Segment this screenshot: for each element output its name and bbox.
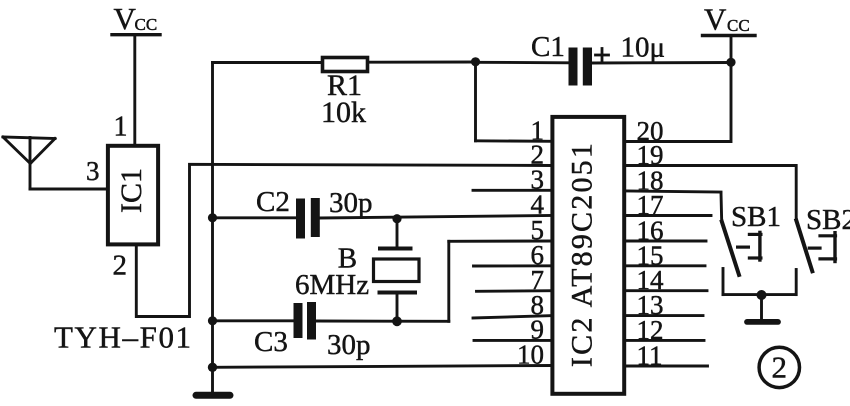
capacitor C1 [569, 48, 593, 86]
node rail-C3 junction [208, 316, 217, 325]
svg-text:IC1: IC1 [115, 168, 148, 213]
crystal B [374, 219, 420, 322]
resistor R1 [323, 58, 368, 72]
node switch-ground junction [757, 290, 767, 300]
ground rail wire [211, 63, 214, 393]
wire C2 to IC2 pin 4 [320, 216, 552, 219]
svg-text:V: V [114, 1, 137, 36]
svg-text:1: 1 [114, 112, 128, 143]
wire C3 to riser [316, 320, 449, 323]
wire IC1 pin 2 to IC2 pin 2 [136, 164, 552, 316]
pin 5 of IC2 (wire from C3/crystal riser) [449, 215, 552, 245]
svg-text:3: 3 [86, 156, 100, 186]
pin 10 of IC2 (ground) [213, 340, 553, 370]
pin 14 of IC2 [626, 265, 707, 295]
wire SB1/SB2 common to ground [723, 293, 796, 296]
wire C1 to VCC-right node [592, 61, 731, 64]
pin 18 of IC2 (wire to SB1) [626, 166, 721, 196]
svg-text:CC: CC [727, 16, 750, 35]
node VCC junction [726, 58, 735, 67]
pin 7 of IC2 [477, 265, 553, 295]
wire node RST to C1 [476, 61, 569, 64]
svg-text:10k: 10k [321, 96, 366, 129]
pushbutton SB1 [721, 193, 761, 295]
svg-text:6MHz: 6MHz [295, 269, 369, 301]
svg-text:2: 2 [113, 250, 128, 282]
wire R1 to node RST [368, 61, 476, 64]
IC2 AT89C2051 [552, 117, 624, 394]
svg-text:IC2 AT89C2051: IC2 AT89C2051 [566, 141, 599, 367]
svg-text:C2: C2 [256, 186, 290, 218]
svg-text:2: 2 [772, 350, 788, 385]
wire riser up to IC2 pin 5 [447, 241, 450, 321]
IC1 receiver module [108, 146, 158, 245]
pin 19 of IC2 (wire to SB2) [626, 140, 796, 170]
pin 9 of IC2 [474, 315, 552, 345]
power VCC left [114, 1, 158, 36]
pin 16 of IC2 [626, 216, 706, 246]
pin 8 of IC2 [473, 290, 552, 320]
svg-text:C1: C1 [531, 31, 565, 63]
wire node RST down to IC2 pin 1 [474, 62, 477, 141]
ground symbol left [196, 392, 230, 399]
svg-text:10μ: 10μ [621, 32, 666, 64]
svg-text:10: 10 [517, 340, 544, 370]
node RST junction [471, 57, 480, 66]
pin 12 of IC2 [626, 315, 704, 345]
pin 1 of IC2 [476, 116, 553, 146]
capacitor C3 [294, 302, 317, 340]
wire rail to C2 [213, 216, 297, 219]
pin 11 of IC2 [626, 341, 708, 371]
svg-text:SB1: SB1 [731, 201, 781, 233]
svg-text:30p: 30p [327, 329, 371, 361]
svg-text:SB2: SB2 [806, 204, 850, 236]
svg-text:CC: CC [135, 15, 158, 34]
pin 3 of IC2 [473, 165, 552, 195]
node C2-crystal junction [392, 214, 401, 223]
svg-text:TYH–F01: TYH–F01 [54, 320, 193, 355]
wire VCC-right down through node to IC2 pin 20 [626, 36, 731, 142]
pin 13 of IC2 [626, 290, 703, 320]
svg-text:11: 11 [637, 341, 663, 371]
pin 6 of IC2 [474, 240, 553, 270]
wire rail to C3 [213, 319, 294, 322]
ground symbol right [747, 319, 778, 325]
pin 15 of IC2 [626, 240, 705, 270]
wire junction down to ground [760, 295, 763, 321]
node rail-pin10 junction [208, 363, 217, 372]
capacitor C2 [296, 198, 320, 239]
node rail-C2 junction [208, 213, 217, 222]
pin 17 of IC2 [626, 190, 711, 220]
svg-text:V: V [704, 2, 727, 37]
figure number 2 [759, 347, 799, 387]
wire VCC-left to IC1 pin 1 [133, 35, 136, 144]
pushbutton SB2 [796, 166, 835, 295]
wire antenna to IC1 pin 3 [30, 188, 106, 191]
node C3-crystal junction [392, 316, 402, 326]
svg-text:C3: C3 [254, 326, 288, 358]
wire rail to R1 [213, 61, 322, 64]
svg-text:30p: 30p [329, 187, 373, 219]
power VCC right [704, 2, 750, 37]
antenna [3, 137, 55, 189]
polarity plus of C1 [596, 49, 609, 62]
